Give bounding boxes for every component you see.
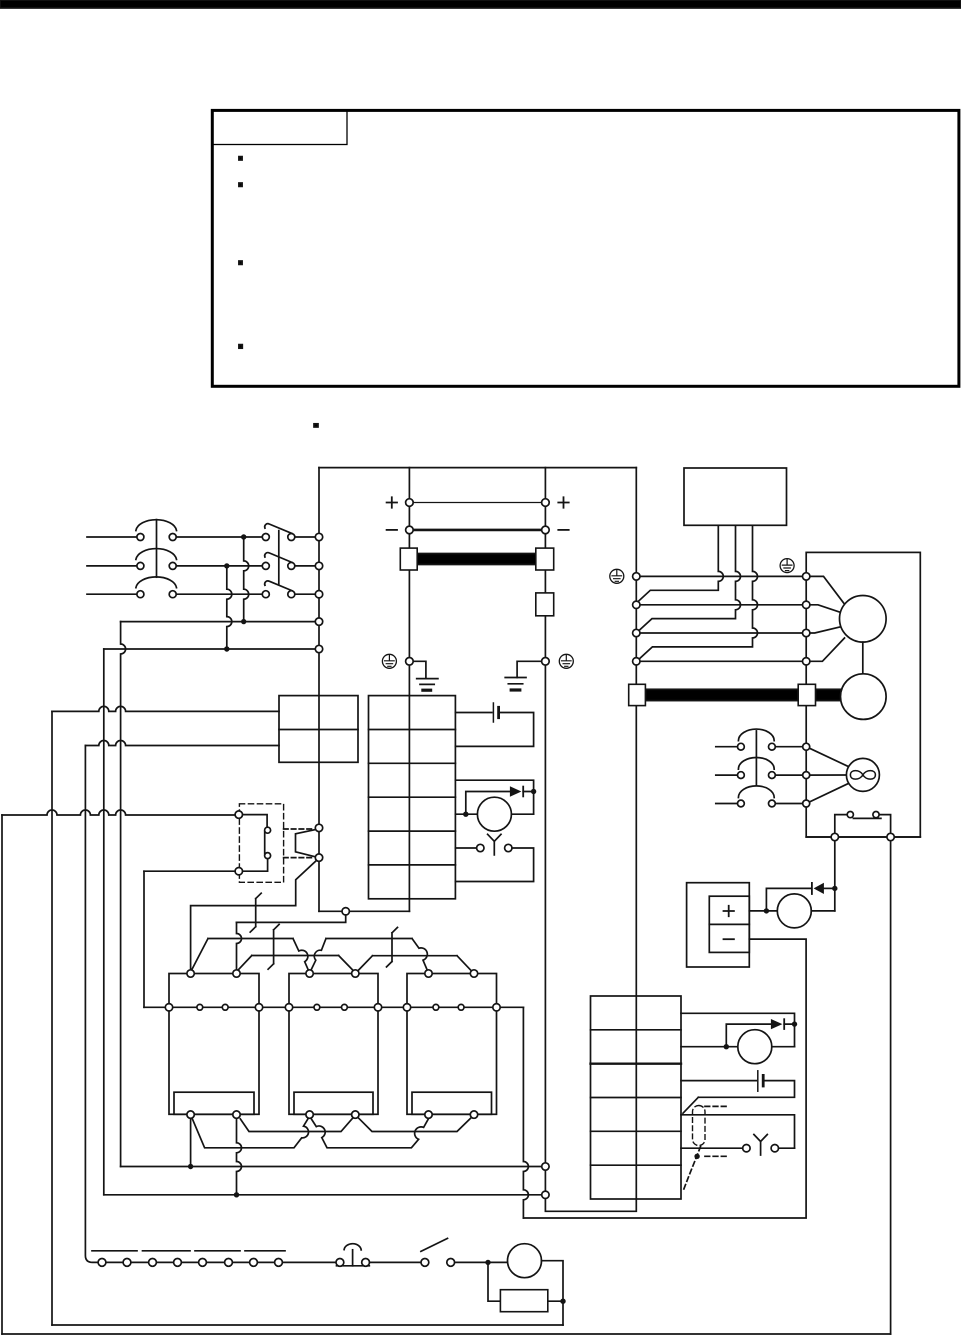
block table2 row line y=1097.5 (591, 1097, 682, 1099)
wire coil link A2 (311, 939, 427, 971)
wire MC1 coil left drop (190, 1118, 192, 1166)
contactor MC pole 3 right terminal (288, 591, 295, 598)
wire fan motor diag 1 (806, 747, 850, 768)
terminal regen unit 2 side-left (285, 1004, 292, 1011)
terminal regen unit 3 bottom-right (470, 1111, 477, 1118)
block power supply unit (684, 468, 787, 525)
wire switch to coil MC (455, 1261, 508, 1263)
wire forced stop return loop (455, 848, 533, 882)
contactor MC pole 2 blade (265, 553, 292, 563)
wire MC-amp phase 2 (295, 565, 316, 567)
wire capsule dashed tail (684, 1147, 701, 1191)
wire regen common bus (144, 1006, 523, 1008)
wire phase W loop (639, 525, 757, 659)
wire fan stub 2 (716, 774, 738, 776)
wire coil link E2 (311, 1119, 428, 1148)
contact NC chain pin 5 (199, 1259, 207, 1267)
wire control bus 2 (104, 1194, 542, 1196)
junction dot relay coil (463, 812, 468, 817)
wire option dashed link 2 (284, 857, 314, 859)
junction dot coil MC (485, 1260, 490, 1265)
ground earth left bars (417, 679, 438, 685)
thermal protector left link (835, 815, 847, 834)
thermal protector contact left (847, 812, 853, 818)
ground earth right bars (505, 678, 526, 684)
terminal regen unit 2 bottom-right (352, 1111, 359, 1118)
junction dot phase2-L21 (224, 646, 229, 651)
block external EMG option (dashed) (239, 804, 283, 883)
junction dot capsule (694, 1154, 699, 1159)
breaker fan pole 1 arc (738, 729, 774, 741)
block table1 row line y=729.5 (369, 729, 456, 731)
encoder E (841, 674, 887, 720)
wire battery2 return loop (683, 1081, 795, 1114)
terminal motor y=661.3 (803, 658, 810, 665)
caution label box (212, 110, 347, 144)
junction dot relay top (531, 789, 536, 794)
wire motor PE lead (640, 575, 802, 577)
wire rail node R1 (x=319) (318, 468, 320, 912)
breaker NFB pole 3 right terminal (169, 591, 176, 598)
junction dot bus1 (188, 1164, 193, 1169)
terminal amp input y=621.6 (315, 618, 322, 625)
contact NC chain pin 1 (98, 1259, 106, 1267)
wire diode D2 out (523, 792, 533, 815)
diode D3 cathode bar (783, 1019, 785, 1029)
diode D2 cathode bar (522, 787, 524, 797)
contact NC chain pin 3 (149, 1259, 157, 1267)
block regen unit 1 (169, 974, 259, 1115)
wire motor W lead (640, 660, 802, 662)
breaker NFB pole 1 arc (136, 520, 177, 531)
terminal amp output y=604.8 (633, 601, 640, 608)
breaker NFB mechanical tie (156, 520, 158, 578)
junction dot relay2 top (792, 1021, 797, 1026)
contactor MC pole 3 left terminal (262, 591, 269, 598)
wire relay2 coil row (681, 1046, 738, 1048)
contactor MC pole 1 left terminal (262, 534, 269, 541)
bullet 4 (239, 345, 242, 349)
wire chain link (233, 1261, 250, 1263)
label plus right (558, 497, 568, 507)
wire forced stop row (455, 847, 476, 849)
terminal option B (235, 868, 242, 875)
fuse F1 (536, 593, 554, 616)
terminal EMG1 (315, 824, 322, 831)
terminal N left (406, 526, 414, 534)
block EMG divider h (279, 729, 358, 731)
contactor MC pole 2 left terminal (262, 562, 269, 569)
terminal regen unit 1 side-right (255, 1004, 262, 1011)
wire OHS2 drop (x=890.6) (890, 841, 892, 1334)
connector encoder left CN2 (629, 684, 646, 705)
terminal bus1 end (542, 1163, 549, 1170)
wire option dashed link 1 (284, 828, 314, 830)
terminal regen unit 1 top-left (187, 970, 194, 977)
bullet 3 (239, 261, 242, 264)
wire coil link F1 (240, 1118, 352, 1131)
wire pushbutton to switch (370, 1261, 421, 1263)
motor cooling fan (846, 758, 879, 791)
wire N bus link (413, 529, 542, 532)
terminal regen unit 2 top-right (352, 970, 359, 977)
diode relay D3 (771, 1019, 783, 1029)
breaker NFB pole 1 right terminal (169, 534, 176, 541)
wire fan link 3 (775, 803, 802, 805)
wire SON branch (237, 915, 346, 922)
wire EMG row 1 (y=711) (52, 706, 279, 711)
wire supply phase 1 stub (87, 536, 137, 538)
switch pushbutton pin right (362, 1259, 370, 1267)
terminal OHS1 (831, 833, 838, 840)
terminal regen unit 1 side-left (165, 1004, 172, 1011)
terminal amp output y=633.0 (633, 629, 640, 636)
block table1 row line y=831.1 (369, 830, 456, 832)
bullet 2 (239, 183, 242, 186)
wire rail node N (x=545) (544, 468, 546, 1195)
ground PE symbol left rail (382, 654, 396, 668)
contactor MC pole 1 right terminal (288, 534, 295, 541)
breaker NFB pole 3 left terminal (137, 591, 144, 598)
wire rail node U (x=636) (635, 468, 637, 1199)
wire forced stop 2 right (779, 1147, 795, 1149)
wire EMG jumper loop (296, 830, 316, 857)
wire bottom outer bus (2, 1333, 891, 1335)
coil electromagnetic brake B (777, 894, 811, 928)
breaker fan pole 3 left terminal (738, 800, 745, 807)
terminal OHS2 (887, 833, 894, 840)
wire supply phase 3 stub (87, 593, 137, 595)
wire L11 drop (x=120.6) (121, 622, 126, 1167)
block servo amplifier CN terminals (369, 696, 456, 899)
wire interlock drop (x=52) (51, 711, 53, 1325)
terminal regen unit 1 sense-1 (197, 1004, 203, 1010)
terminal bus2 end (542, 1191, 549, 1198)
wire phase U loop (637, 525, 723, 602)
contactor MC pole 3 blade (265, 581, 292, 591)
wire supply phase 2 stub (87, 565, 137, 567)
wire fan stub 3 (716, 803, 738, 805)
contactor MC mechanical tie (278, 531, 280, 585)
block regen unit 2 (289, 974, 378, 1115)
wire motor terminal 2 diag (806, 605, 840, 613)
resistor element regen unit 1 (174, 1092, 254, 1114)
wire coil link A1 (192, 939, 309, 970)
wire relay diode branch (466, 792, 510, 815)
wire control L11 row (121, 621, 316, 623)
switch pushbutton bridge (337, 1265, 370, 1267)
wire battery return loop (455, 713, 533, 747)
label fan infinity symbol (850, 771, 875, 780)
wire brake minus return loop (523, 939, 806, 1218)
wire relay RA row (455, 780, 533, 791)
switch option contact pin 1 (265, 827, 271, 833)
wire fan motor lead 2 (806, 774, 846, 776)
terminal regen unit 1 bottom-right (233, 1111, 240, 1118)
terminal PE left (406, 658, 414, 666)
wire chain link (131, 1261, 149, 1263)
terminal regen unit 2 sense-1 (314, 1004, 320, 1010)
block table1 row line y=763.3 (369, 762, 456, 764)
wire diode D3 out (784, 1024, 794, 1047)
terminal regen unit 1 top-right (233, 970, 240, 977)
wire option row link (681, 1115, 795, 1148)
wire motor terminal 1 diag (806, 576, 846, 606)
wire brake plus lead (749, 910, 777, 912)
wire relay2 diode branch (726, 1024, 770, 1047)
terminal regen unit 1 sense-2 (222, 1004, 228, 1010)
terminal fan y=775.1 (803, 772, 810, 779)
wire brake diode branch (766, 888, 811, 911)
wire chain link (182, 1261, 199, 1263)
ground earth right base (511, 688, 520, 691)
wire chain link (207, 1261, 225, 1263)
wire motor U lead (640, 604, 802, 606)
wire chain feed drop (x=85.4) (85, 746, 98, 1263)
terminal regen unit 3 side-left (403, 1004, 410, 1011)
wire battery2 row (681, 1080, 756, 1082)
terminal regen unit 1 bottom-left (187, 1111, 194, 1118)
terminal amp input y=649.0 (315, 645, 322, 652)
wire earth right (517, 661, 542, 677)
wire thermal row (806, 836, 920, 838)
terminal regen unit 3 top-right (470, 970, 477, 977)
terminal PE right (542, 658, 550, 666)
label plus brake supply (724, 906, 734, 916)
wire chain link (157, 1261, 174, 1263)
breaker fan pole 2 left terminal (738, 772, 745, 779)
wire phase1 tap drop (244, 537, 249, 622)
terminal regen unit 2 sense-2 (342, 1004, 348, 1010)
block table1 row line y=864.9 (369, 864, 456, 866)
ground earth left base (423, 689, 431, 692)
label minus brake supply (724, 938, 734, 940)
wire relay2 row (681, 1013, 795, 1024)
junction dot surge (560, 1299, 565, 1304)
wire L21 drop (x=103.8) (103, 649, 105, 1195)
switch pushbutton cap (344, 1244, 361, 1250)
switch pushbutton pin left (336, 1259, 344, 1267)
breaker NFB pole 3 arc (136, 577, 177, 588)
ground PE symbol motor rail (610, 569, 624, 583)
wire control L21 row (104, 648, 316, 650)
wire option contact bottom (243, 859, 268, 872)
junction dot phase1 tap (241, 534, 246, 539)
wire fan link 1 (775, 746, 802, 748)
switch forced stop 2 left (743, 1145, 750, 1152)
breaker NFB pole 2 left terminal (137, 562, 144, 569)
wire battery row CN1a (455, 712, 491, 714)
block EMG terminal box (279, 696, 358, 763)
terminal regen unit 2 top-left (306, 970, 313, 977)
terminal amp input y=537.0 (315, 533, 322, 540)
wire option B feed (144, 870, 235, 872)
wire coil link B1 (238, 956, 353, 971)
wire coil link B2 (358, 956, 472, 971)
block brake supply divider (709, 923, 749, 925)
wire motor terminal 4 diag (806, 638, 844, 661)
ground PE symbol motor frame (780, 559, 794, 573)
terminal regen unit 3 sense-2 (458, 1004, 464, 1010)
breaker fan pole 1 right terminal (769, 743, 776, 750)
breaker fan pole 3 arc (738, 786, 774, 798)
terminal amp input y=594.2 (315, 591, 322, 598)
ground PE symbol right rail (559, 654, 573, 668)
switch ON pin right (447, 1259, 455, 1267)
cable encoder tail (816, 689, 842, 700)
top page header bar (0, 0, 961, 8)
wire earth left (413, 661, 426, 678)
motor servo motor M (840, 596, 887, 643)
wire motor terminal 3 diag (806, 627, 841, 633)
contact NC chain pin 6 (225, 1259, 233, 1267)
bullet 1 (239, 157, 242, 160)
coil relay RA1 (477, 797, 511, 831)
diode relay D2 (510, 786, 522, 796)
contact MC aux 2 (268, 924, 279, 969)
block regen unit 3 (407, 974, 497, 1115)
terminal regen unit 3 top-left (425, 970, 432, 977)
wire diode D1 out (824, 887, 835, 889)
junction dot brake top (832, 886, 837, 891)
battery MR-BAT long plate (492, 703, 494, 722)
wire top bridge L11-L21-L31 (319, 467, 636, 469)
wire P bus link (413, 502, 542, 504)
wire coil link F2 (359, 1118, 471, 1131)
battery 2 short plate (762, 1075, 765, 1086)
block amplifier 2 terminals (591, 996, 682, 1199)
terminal N right (542, 526, 550, 534)
breaker fan mechanical tie (755, 731, 757, 786)
wire brake riser (x=834.8) (834, 841, 836, 911)
wire motor V lead (640, 632, 802, 634)
wire far-left loop (x=2) (1, 815, 3, 1334)
switch option contact pin 2 (265, 853, 271, 859)
battery MR-BAT short plate (497, 707, 500, 717)
terminal P right (542, 499, 550, 507)
connector bus bar left (400, 548, 417, 570)
breaker NFB pole 2 right terminal (169, 562, 176, 569)
contact MC aux 1 (250, 893, 261, 932)
wire table2 bottom link (545, 1198, 636, 1211)
terminal regen unit 3 bottom-left (425, 1111, 432, 1118)
resistor element regen unit 3 (412, 1092, 492, 1114)
terminal option A (235, 811, 242, 818)
wire capsule dashed stub top (705, 1105, 727, 1107)
connector bus bar right (536, 548, 554, 570)
wire MC-amp phase 3 (295, 593, 316, 595)
block table1 row line y=797.2 (369, 796, 456, 798)
wire chain link (106, 1261, 123, 1263)
connector option capsule (dashed) (693, 1106, 706, 1146)
block table2 row line y=1029.8 (591, 1029, 682, 1031)
wire control bus 1 (121, 1166, 542, 1168)
terminal amp output y=661.3 (633, 658, 640, 665)
contactor MC pole 1 blade (265, 524, 292, 534)
terminal motor y=604.8 (803, 601, 810, 608)
resistor surge absorber (500, 1290, 547, 1312)
switch forced stop contact right (505, 844, 512, 851)
contact NC chain pin 7 (250, 1259, 258, 1267)
terminal regen unit 3 side-right (493, 1004, 500, 1011)
wire regen bus drop (x=523.4) (523, 1007, 528, 1218)
contact NC overbar (143, 1250, 191, 1252)
block table2 row line y=1063.7 (bold) (591, 1062, 682, 1064)
wire phase V loop (639, 525, 741, 631)
wire NFB-MC phase 3 (176, 593, 262, 595)
wire chain link (258, 1261, 275, 1263)
terminal fan y=803.5 (803, 800, 810, 807)
breaker NFB pole 2 arc (136, 549, 177, 560)
thermal protector contact bar (853, 817, 881, 819)
battery 2 long plate (757, 1071, 759, 1091)
wire coil link E1 (193, 1119, 309, 1148)
contact NC chain pin 2 (123, 1259, 131, 1267)
wire table1 bottom row (319, 910, 409, 912)
breaker NFB pole 1 left terminal (137, 534, 144, 541)
terminal regen unit 2 side-right (374, 1004, 381, 1011)
wire NFB-MC phase 1 (176, 536, 262, 538)
wire fan motor diag 3 (806, 783, 850, 804)
wire option B drop (x=144) (143, 871, 145, 1007)
switch forced stop operator (488, 834, 501, 855)
contactor MC pole 2 right terminal (288, 562, 295, 569)
cable encoder bus (645, 689, 798, 700)
caution box (212, 110, 959, 386)
contact NC overbar (245, 1250, 285, 1252)
junction dot bus2 (234, 1192, 239, 1197)
connector encoder right (798, 684, 815, 705)
wire coil MC right (542, 1261, 564, 1325)
terminal fan y=746.7 (803, 743, 810, 750)
wire MC1 coil right drop (237, 1118, 242, 1194)
switch forced stop 2 operator (754, 1135, 767, 1156)
section bullet (314, 424, 318, 427)
cable power bus bar (417, 554, 537, 565)
wire SON drop (x=236.5) (237, 922, 242, 969)
terminal SON (342, 908, 349, 915)
contact MC aux 3 (387, 927, 398, 967)
block brake power supply inner (709, 896, 749, 952)
coil contactor MC (508, 1244, 542, 1278)
wire relay coil right (511, 813, 533, 815)
label minus right (558, 529, 568, 531)
junction dot brake plus (764, 908, 769, 913)
terminal amp output y=576.4 (633, 573, 640, 580)
wire chain to pushbutton (283, 1261, 337, 1263)
terminal amp input y=565.9 (315, 562, 322, 569)
switch ON pin left (421, 1259, 429, 1267)
terminal motor y=576.4 (803, 573, 810, 580)
thermal protector contact right (873, 812, 879, 818)
wire brake coil right lead (811, 910, 835, 912)
switch ON blade (421, 1238, 448, 1251)
switch forced stop 2 right (771, 1145, 778, 1152)
junction dot phase1-L11 (241, 619, 246, 624)
block table2 row line y=1131.3 (591, 1130, 682, 1132)
breaker fan pole 1 left terminal (738, 743, 745, 750)
breaker fan pole 2 right terminal (769, 772, 776, 779)
diode brake flyback D1 (814, 883, 824, 894)
contact NC chain pin 8 (275, 1259, 283, 1267)
terminal regen unit 3 sense-1 (433, 1004, 439, 1010)
wire bottom control bus (52, 1324, 563, 1326)
contact NC chain pin 4 (174, 1259, 182, 1267)
wire option contact top (243, 815, 268, 827)
breaker fan pole 3 right terminal (769, 800, 776, 807)
wire phase2 tap drop (227, 566, 232, 649)
wire capsule dashed stub bottom (705, 1155, 727, 1157)
